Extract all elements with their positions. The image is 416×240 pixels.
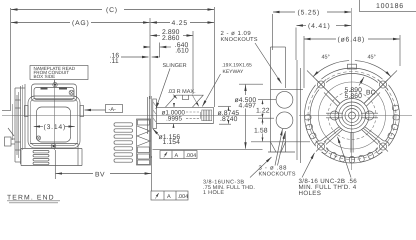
svg-text:45°: 45°	[368, 55, 376, 61]
spoke lower right	[362, 127, 388, 149]
svg-text:4.497: 4.497	[239, 103, 257, 110]
svg-text:BV: BV	[95, 171, 105, 178]
keyway notch	[183, 95, 189, 99]
45 line right	[364, 71, 397, 104]
svg-text:-A-: -A-	[109, 107, 117, 113]
boss top line	[271, 88, 304, 90]
leader holes short	[302, 153, 315, 178]
spoke upper right	[364, 90, 378, 104]
rabbet tick top	[239, 83, 263, 85]
svg-text:.11: .11	[110, 58, 119, 65]
shaft end face	[213, 107, 215, 123]
extension line x193.5	[192, 31, 194, 94]
base left edge	[20, 149, 22, 166]
svg-text:.610: .610	[175, 48, 189, 55]
title box 100186	[360, 0, 416, 12]
extension line x150	[149, 18, 151, 99]
svg-text:2 - ø 1.09: 2 - ø 1.09	[221, 30, 252, 37]
BOTTOMTEXT	[7, 150, 357, 203]
slinger disc	[153, 99, 157, 129]
svg-text:(C): (C)	[106, 7, 118, 14]
conduit side bottom	[268, 151, 295, 153]
bearing boss lines	[147, 97, 149, 134]
bolt hole top right	[378, 79, 389, 90]
knockout circle 2	[276, 112, 293, 129]
45 arc right	[355, 61, 391, 77]
leader holes long	[338, 137, 352, 178]
leader knockouts3 a	[275, 129, 283, 166]
extension line shaft end top	[214, 7, 216, 107]
horizontal centerline	[2, 114, 262, 116]
dim line C	[11, 9, 102, 11]
face circle	[319, 82, 386, 149]
svg-text:TERM. END: TERM. END	[7, 195, 55, 202]
runout leader line	[153, 148, 263, 150]
fcf2 frame	[151, 191, 188, 200]
svg-text:.004: .004	[178, 194, 189, 200]
dim dia 6.48	[304, 38, 336, 40]
hub circles	[349, 112, 356, 119]
screw lower left	[36, 136, 40, 140]
base inner right	[77, 144, 79, 166]
flange face line	[296, 60, 298, 160]
stator profile	[37, 107, 71, 142]
CONDUITSIDE	[153, 47, 311, 166]
nameplate note box	[30, 66, 88, 80]
svg-text:(AG): (AG)	[72, 20, 90, 27]
spoke upper left	[327, 90, 341, 104]
motor square inner offset	[30, 98, 77, 145]
extension line left overall	[10, 8, 12, 111]
rim inner circle	[310, 74, 394, 158]
base mid line	[21, 148, 82, 150]
45 arc left	[313, 61, 349, 77]
datum A box	[106, 105, 123, 113]
keyway leader	[202, 74, 220, 107]
knockout circle 1	[276, 91, 293, 108]
extension line circle left	[303, 36, 305, 88]
svg-text:4.25: 4.25	[172, 20, 188, 27]
dim line 4.25	[150, 22, 170, 24]
BC leader	[359, 77, 364, 86]
svg-text:1.22: 1.22	[256, 107, 270, 114]
rabbet dashed circle	[328, 92, 376, 140]
leader knockouts3 b	[278, 133, 286, 166]
svg-text:45°: 45°	[322, 55, 330, 61]
base right edge	[81, 149, 83, 166]
conduit box notch1	[41, 87, 48, 89]
svg-text:KNOCKOUTS: KNOCKOUTS	[259, 172, 296, 178]
circle horizontal centerline	[299, 115, 412, 117]
base vent bar4	[33, 162, 49, 164]
base top line	[30, 143, 78, 145]
ENDVIEW	[2, 66, 262, 166]
shaft bottom edge	[156, 123, 213, 125]
BV extension left	[54, 150, 56, 179]
svg-text:2.860: 2.860	[162, 35, 180, 42]
svg-text:100186: 100186	[376, 3, 404, 10]
hub bottom web	[350, 133, 352, 153]
dia 8745 ticks and arrows	[218, 105, 231, 107]
CIRCLEVIEW	[299, 8, 412, 178]
bolt hole top left	[316, 79, 327, 90]
svg-text:BOX SIDE: BOX SIDE	[34, 74, 56, 79]
svg-text:SLINGER: SLINGER	[163, 63, 187, 69]
conduit screw top	[53, 82, 57, 86]
screw bottom center	[51, 144, 56, 149]
bracket column outline	[137, 119, 151, 165]
leader knockouts2	[255, 43, 282, 84]
conduit screw right	[69, 90, 74, 95]
svg-text:KEYWAY: KEYWAY	[223, 69, 245, 75]
svg-text:1 HOLE: 1 HOLE	[203, 190, 224, 196]
bolt hole bottom right	[378, 141, 389, 152]
motor square outer	[28, 96, 80, 148]
shaft dia arrows	[173, 105, 175, 107]
fin bars column	[114, 123, 133, 162]
tapped hole dashes	[186, 111, 201, 113]
base vent bar3	[33, 159, 49, 161]
dim 3.14	[34, 126, 43, 128]
rabbet dim vertical	[245, 85, 247, 95]
dim .640 .610	[159, 43, 161, 58]
slinger leader	[156, 69, 170, 110]
side boss left	[330, 111, 339, 120]
svg-text:.004: .004	[186, 153, 197, 159]
dim 5.25	[272, 14, 274, 50]
radius leader 1	[173, 95, 177, 99]
BV extension right	[151, 156, 153, 191]
svg-text:(4.41): (4.41)	[308, 23, 331, 30]
teeth slots	[305, 105, 400, 163]
side bump left	[25, 106, 29, 117]
svg-text:.19X.19X1.65: .19X.19X1.65	[222, 63, 253, 69]
side bump right	[80, 106, 84, 117]
clamp block left	[5, 137, 12, 146]
fcf1 frame	[160, 151, 197, 159]
45 line left	[307, 71, 340, 104]
side boss right	[365, 111, 374, 120]
keyway quad	[165, 95, 203, 107]
dim 4.41	[295, 28, 297, 61]
svg-text:A: A	[167, 194, 171, 200]
svg-text:(5.25): (5.25)	[298, 10, 321, 17]
thread zone	[202, 110, 213, 121]
nameplate leader	[54, 80, 56, 83]
circle vertical centerline	[351, 8, 353, 170]
base vent bar1	[33, 151, 49, 153]
svg-text:(3.14): (3.14)	[44, 124, 67, 131]
rear cover profile lines	[14, 88, 16, 162]
flange face line2	[300, 68, 302, 163]
dim line AG	[11, 22, 70, 24]
svg-text:5.860: 5.860	[345, 93, 363, 100]
radius leader 2	[192, 95, 199, 107]
left pointer line	[2, 110, 10, 112]
top hub bump	[348, 64, 357, 69]
extension line circle right	[399, 35, 401, 66]
svg-text:.9995: .9995	[166, 116, 182, 123]
vertical centerline endview	[54, 81, 56, 151]
dim 2.890 2.860	[150, 35, 160, 37]
svg-text:1.58: 1.58	[254, 127, 268, 134]
TOPDIMS	[11, 0, 416, 111]
svg-text:KNOCKOUTS: KNOCKOUTS	[221, 37, 258, 43]
SHAFT	[114, 63, 252, 166]
conduit side top	[271, 46, 286, 48]
conduit box inner	[34, 88, 74, 100]
svg-text:.03 R MAX.: .03 R MAX.	[168, 89, 197, 95]
svg-text:A: A	[175, 153, 179, 159]
svg-text:1.154: 1.154	[163, 139, 181, 146]
dia 1.156 leader	[153, 129, 159, 136]
bracket zigzag	[137, 126, 150, 146]
conduit bottom taper	[271, 142, 286, 152]
datum A leader	[85, 109, 106, 111]
bolt hole bottom left	[316, 141, 327, 152]
bracket lower rects	[138, 147, 150, 153]
svg-text:BC: BC	[366, 89, 376, 96]
thread callout 1 leader	[250, 157, 272, 178]
base vent bar2	[33, 155, 49, 157]
spoke lower left	[317, 127, 343, 149]
conduit box notch2	[59, 87, 67, 89]
conduit box outer	[32, 84, 77, 101]
outer circle	[305, 68, 400, 163]
base bottom	[21, 165, 82, 167]
svg-text:HOLES: HOLES	[299, 190, 322, 197]
BV dim line	[56, 173, 93, 175]
conduit side wall left	[270, 47, 272, 152]
shaft top edge	[156, 106, 213, 108]
conduit side wall right	[285, 47, 287, 88]
bracket top rect	[138, 120, 150, 125]
bolt circle dashed	[308, 72, 396, 160]
